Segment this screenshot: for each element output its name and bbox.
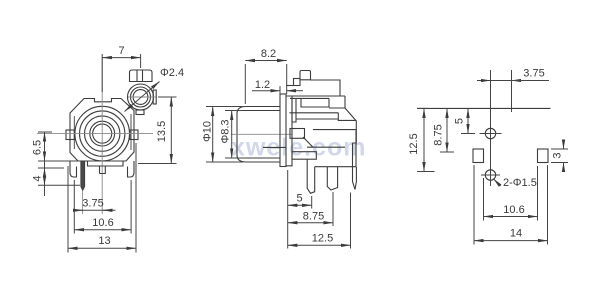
dimension 12.5 line <box>288 244 351 246</box>
pin centerline <box>82 191 84 214</box>
left side tab <box>66 130 74 140</box>
dimension phi10 line <box>212 107 214 163</box>
leg 3 side view <box>353 143 357 190</box>
dimension 3.75fp arrow left <box>477 80 491 82</box>
dimension 14 extension right <box>547 165 549 245</box>
dimension 13 extension left <box>67 166 69 253</box>
horizontal centerline front view <box>37 133 153 135</box>
center contact strip <box>292 152 316 160</box>
housing mid line 1 <box>289 112 338 114</box>
dimension 12.5fp line <box>423 108 425 171</box>
contact hidden line and housing ledge <box>263 146 345 148</box>
svg-text:12.5: 12.5 <box>312 233 333 245</box>
housing long top line <box>286 95 345 97</box>
switch boss circle outer <box>128 84 154 110</box>
svg-text:6.5: 6.5 <box>32 140 44 155</box>
svg-text:10.6: 10.6 <box>503 204 524 216</box>
dimension 3.75 arrow right <box>103 209 112 211</box>
dimension 8.2 extension left <box>244 64 246 104</box>
dimension 10.6fp extension right <box>537 166 539 221</box>
dimension 5 extension <box>311 196 313 209</box>
hole axis vertical line <box>490 70 492 186</box>
leg 2 side view <box>327 167 337 190</box>
dimension 1.2 arrow left <box>272 90 281 92</box>
lower hole <box>485 170 495 180</box>
center stub <box>100 166 106 174</box>
svg-text:8.2: 8.2 <box>261 48 276 60</box>
svg-text:7: 7 <box>118 45 124 57</box>
barrel inner line top <box>239 110 280 112</box>
dimension 1.2 extension <box>279 86 281 98</box>
dimension 8.75fp line <box>446 108 448 152</box>
dimension 13.5 line <box>170 97 172 164</box>
bottom shelf line <box>88 161 124 166</box>
svg-text:2-Φ1.5: 2-Φ1.5 <box>503 177 537 189</box>
upper hole <box>485 128 495 138</box>
dimension 10.6 extension left <box>73 180 75 234</box>
svg-text:8.75: 8.75 <box>433 124 445 145</box>
switch boss circle mid <box>131 87 151 107</box>
hole callout leader <box>494 179 501 186</box>
step block <box>294 79 301 86</box>
jack barrel circle 2 <box>80 111 125 156</box>
jack barrel circle outer <box>75 106 130 161</box>
barrel centerline <box>231 133 292 135</box>
dimension 6.5 line <box>44 132 46 161</box>
dimension 3.75 line <box>74 209 116 211</box>
dimension 10.6fp line <box>484 216 538 218</box>
svg-text:Φ10: Φ10 <box>202 121 214 142</box>
left foot <box>70 161 77 177</box>
dimension 10.6 line <box>74 229 131 231</box>
dimension 8.75 line <box>288 222 333 224</box>
housing notch <box>290 129 305 139</box>
jack barrel circle inner <box>93 124 112 143</box>
left dims common tick <box>417 107 427 109</box>
castle slot line 1 <box>136 70 138 82</box>
dimension 5fp tick bottom <box>461 133 475 135</box>
dimension 4 line <box>44 168 46 185</box>
housing right bevel <box>345 108 356 143</box>
jack barrel circle 4 <box>90 121 115 146</box>
dimension 3fp arrow bottom <box>563 163 565 172</box>
dimension 7 line <box>102 57 140 59</box>
dimension 6.5 tick bottom <box>38 160 78 162</box>
dimension 3.75 arrow left <box>75 209 83 211</box>
dimension 14 extension left <box>473 165 475 245</box>
lower hole crosshair <box>481 174 500 176</box>
svg-text:xwele.com: xwele.com <box>231 134 366 162</box>
dimension 7 extension right <box>140 54 142 68</box>
svg-text:3: 3 <box>552 152 564 158</box>
svg-text:3.75: 3.75 <box>523 68 544 80</box>
front face inner edge right <box>130 114 132 150</box>
right side tab <box>130 130 138 140</box>
dimension 8.2 extension right <box>286 64 288 94</box>
svg-text:Φ8.3: Φ8.3 <box>220 119 232 143</box>
svg-text:5: 5 <box>454 118 466 124</box>
step above flange <box>286 85 294 87</box>
dimension 1.2 arrow right <box>286 90 295 92</box>
right foot <box>128 161 135 177</box>
svg-text:4: 4 <box>32 175 44 181</box>
vertical centerline front view <box>101 57 103 214</box>
svg-text:3.75: 3.75 <box>82 198 103 210</box>
dimension phi8.3 tick top <box>225 110 243 112</box>
svg-text:14: 14 <box>510 228 522 240</box>
dimension 12.5 extension <box>350 193 352 249</box>
dimension 4 tick top <box>38 167 64 169</box>
dimension 14 line <box>474 240 548 242</box>
boss right flat <box>153 90 156 104</box>
dimension phi8.3 line <box>231 111 233 159</box>
svg-text:Φ2.4: Φ2.4 <box>160 67 184 79</box>
dimension 8.75 extension <box>332 192 334 226</box>
svg-text:1.2: 1.2 <box>255 79 270 91</box>
svg-text:10.6: 10.6 <box>92 217 113 229</box>
dimension base extension side view <box>287 170 289 249</box>
dimension 13 extension right <box>135 143 137 253</box>
solder pin dark <box>81 161 85 191</box>
flange back plate <box>286 96 292 166</box>
dimension 8.2 line <box>245 60 286 62</box>
svg-text:5: 5 <box>296 193 302 205</box>
dimension 10.6fp extension left <box>483 178 485 221</box>
svg-text:12.5: 12.5 <box>408 133 420 154</box>
dimension 13.5 tick top <box>158 96 177 98</box>
dimension phi10 tick top <box>206 106 243 108</box>
right pad <box>538 149 549 163</box>
front face inner edge left <box>73 116 75 149</box>
left pad <box>473 149 484 163</box>
svg-text:8.75: 8.75 <box>303 211 324 223</box>
dimension 7 extension left <box>101 54 103 92</box>
dimension 12.5fp tick bottom <box>417 171 435 173</box>
barrel inner line bottom <box>239 157 280 159</box>
dimension 3.75fp tail <box>512 80 550 82</box>
dimension 1.2 line right <box>296 90 304 92</box>
housing bottom edge <box>315 166 356 168</box>
housing top edge <box>311 80 341 96</box>
dimension 3fp tick bottom <box>551 162 568 164</box>
dimension 3.75fp line <box>491 80 512 82</box>
boss horizontal centerline <box>128 96 156 98</box>
housing right upper edge <box>329 96 345 108</box>
barrel outline side view <box>237 107 280 163</box>
dimension 5fp line <box>467 108 469 133</box>
dimension 13 line <box>68 247 136 249</box>
svg-text:13: 13 <box>98 235 110 247</box>
housing window <box>301 98 329 107</box>
dimension 3fp arrow top <box>563 140 565 149</box>
dimension 5 line <box>288 204 312 206</box>
upper hole crosshair <box>480 133 502 135</box>
housing right edge lower <box>355 130 357 167</box>
housing mid line 3 <box>313 129 356 131</box>
housing bevel to shelf <box>303 137 313 147</box>
housing mid line 2 <box>296 118 338 120</box>
top cap <box>300 71 311 80</box>
dimension 4 tick bottom <box>38 184 80 186</box>
dimension 13.5 tick bottom <box>138 163 177 165</box>
dimension phi8.3 tick bottom <box>225 157 243 159</box>
footprint top line <box>417 107 551 109</box>
switch castle top <box>130 70 153 82</box>
dimension 3.75fp extension right <box>511 70 513 112</box>
dimension 8.75fp tick bottom <box>440 151 454 153</box>
svg-text:13.5: 13.5 <box>156 121 168 142</box>
front view body outline <box>70 99 134 162</box>
dimension connector line <box>44 161 46 196</box>
housing second edge <box>290 97 329 99</box>
dimension 3fp tick top <box>551 148 568 150</box>
dimension 6.5 tick top <box>38 131 52 133</box>
contact bar left <box>292 98 296 122</box>
housing mid step <box>338 113 356 121</box>
leg 1 side view <box>307 159 315 193</box>
castle slot line 2 <box>142 70 144 82</box>
flange plate <box>280 94 286 167</box>
dimension 1.2 line left <box>252 90 272 92</box>
dimension phi2.4 leader <box>125 82 160 112</box>
switch boss circle inner <box>133 90 148 105</box>
boss bottom tab <box>136 110 144 115</box>
dimension 10.6 extension right <box>130 180 132 234</box>
dimension 3.75fp arrow right <box>512 80 525 82</box>
dimension phi10 tick bottom <box>206 161 243 163</box>
jack barrel circle 3 <box>85 116 120 151</box>
